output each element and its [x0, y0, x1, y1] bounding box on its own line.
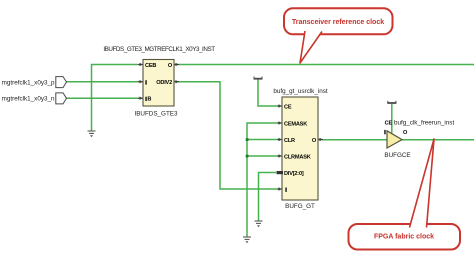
svg-text:CLRMASK: CLRMASK — [284, 155, 311, 161]
svg-text:DIV[2:0]: DIV[2:0] — [284, 171, 304, 177]
svg-text:B: B — [147, 97, 151, 103]
svg-text:BUFGCE: BUFGCE — [384, 152, 410, 159]
svg-text:IBUFDS_GTE3: IBUFDS_GTE3 — [134, 111, 178, 118]
svg-text:BUFG_GT: BUFG_GT — [285, 203, 315, 210]
svg-text:ODIV2: ODIV2 — [156, 80, 172, 86]
svg-text:IBUFDS_GTE3_MGTREFCLK1_X0Y3_IN: IBUFDS_GTE3_MGTREFCLK1_X0Y3_INST — [103, 46, 215, 53]
svg-text:bufg_clk_freerun_inst: bufg_clk_freerun_inst — [394, 120, 454, 127]
svg-text:CLR: CLR — [284, 138, 295, 144]
svg-text:Transceiver reference clock: Transceiver reference clock — [292, 19, 384, 26]
svg-text:mgtrefclk1_x0y3_n: mgtrefclk1_x0y3_n — [2, 96, 55, 103]
svg-text:FPGA fabric clock: FPGA fabric clock — [374, 234, 434, 241]
svg-text:CEB: CEB — [145, 63, 156, 69]
svg-text:CE: CE — [385, 121, 393, 127]
svg-text:CE: CE — [284, 105, 292, 111]
svg-text:CEMASK: CEMASK — [284, 122, 307, 128]
svg-text:bufg_gt_usrclk_inst: bufg_gt_usrclk_inst — [273, 88, 328, 95]
svg-text:mgtrefclk1_x0y3_p: mgtrefclk1_x0y3_p — [2, 79, 55, 86]
